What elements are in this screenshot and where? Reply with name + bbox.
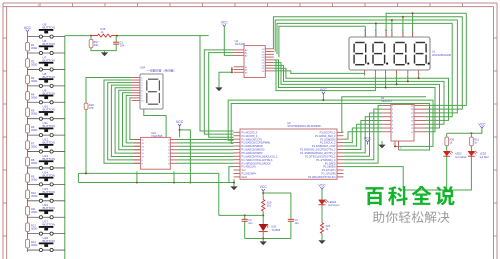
- wire C1 branch: [115, 36, 117, 43]
- wire VCC rail (left): [27, 31, 29, 252]
- wire button row 3: [28, 68, 65, 70]
- svg-text:8: 8: [392, 128, 393, 130]
- svg-text:9: 9: [392, 132, 393, 134]
- svg-text:E3: E3: [245, 72, 247, 74]
- svg-text:1: 1: [168, 140, 169, 142]
- wire vcc to LED: [321, 189, 323, 200]
- wire MCU to U3: [344, 113, 383, 156]
- LED LED24 green: [319, 199, 340, 207]
- wire seg bus b3: [274, 65, 444, 124]
- power VCC (mid): [320, 88, 328, 94]
- svg-text:VCC: VCC: [364, 136, 372, 140]
- resistor R21 1k: [470, 137, 480, 146]
- junction: [470, 132, 472, 134]
- power VCC (TL431): [260, 185, 268, 191]
- wire tap line: [219, 214, 263, 216]
- wire reset net: [200, 35, 209, 37]
- svg-text:O5: O5: [262, 63, 265, 65]
- wire button row 5: [28, 101, 65, 103]
- wire MCU to U3: [344, 132, 383, 139]
- svg-text:P1.2(M30): P1.2(M30): [323, 165, 335, 169]
- svg-text:led Red: led Red: [480, 156, 489, 159]
- capacitor C3 10u: [288, 219, 299, 225]
- svg-text:300Ω: 300Ω: [31, 210, 37, 214]
- wire 7seg segment net: [123, 93, 141, 147]
- wire link A-B: [77, 173, 79, 182]
- diode U25 TL431B: [259, 224, 281, 232]
- resistor R6 300: [26, 124, 38, 133]
- ground (U4): [215, 87, 222, 91]
- resistor R19 510: [262, 200, 272, 212]
- wire button row 6: [28, 118, 65, 120]
- svg-text:300Ω: 300Ω: [31, 95, 37, 99]
- svg-text:3: 3: [392, 109, 393, 111]
- ground (green LED): [318, 240, 325, 244]
- svg-text:P1.4/SMOD2/RxD3_2(OTP)_2: P1.4/SMOD2/RxD3_2(OTP)_2: [300, 151, 336, 155]
- svg-text:P1.3/CCP0_3: P1.3/CCP0_3: [242, 134, 258, 138]
- svg-text:led Yellow: led Yellow: [455, 156, 466, 159]
- wire MCU to U3: [344, 105, 383, 163]
- resistor R26 470: [84, 103, 94, 110]
- push-button U8: [39, 72, 55, 88]
- junction: [375, 22, 377, 24]
- resistor R12 300: [26, 223, 38, 232]
- 7-segment display U24: [140, 65, 174, 109]
- svg-text:300Ω: 300Ω: [31, 243, 37, 247]
- resistor R20 1k: [445, 137, 455, 146]
- svg-text:9: 9: [142, 160, 143, 162]
- wire U21 to U2: [178, 139, 234, 141]
- wire seg bus b6: [276, 60, 375, 91]
- wire MCU to U3: [344, 109, 383, 160]
- svg-text:P1.3/MOSI0_2/CCP2/(OTR)_2: P1.3/MOSI0_2/CCP2/(OTR)_2: [300, 148, 336, 152]
- svg-text:P1.4/T3(M3C)_2: P1.4/T3(M3C)_2: [316, 158, 336, 162]
- push-button U15: [39, 187, 55, 203]
- svg-text:P1.5/SCMPx: P1.5/SCMPx: [242, 172, 258, 176]
- svg-text:12: 12: [411, 132, 413, 134]
- wire gnd stub: [262, 239, 264, 242]
- svg-text:300Ω: 300Ω: [31, 46, 37, 50]
- svg-text:VCC: VCC: [176, 120, 184, 124]
- resistor R8 300: [26, 157, 38, 166]
- svg-text:300Ω: 300Ω: [31, 161, 37, 165]
- wire stub U21 oe: [173, 172, 175, 183]
- svg-text:300Ω: 300Ω: [31, 145, 37, 149]
- svg-text:8: 8: [168, 163, 169, 165]
- wire LED returns: [447, 156, 472, 190]
- svg-text:3: 3: [168, 146, 169, 148]
- svg-text:O2: O2: [262, 54, 265, 56]
- svg-text:15: 15: [411, 120, 413, 122]
- svg-text:15: 15: [142, 140, 144, 142]
- svg-text:14: 14: [142, 143, 144, 145]
- push-button U6: [39, 39, 55, 55]
- junction: [244, 214, 246, 216]
- svg-text:10u: 10u: [248, 222, 253, 225]
- svg-text:P1.0/CCP0_3: P1.0/CCP0_3: [320, 130, 336, 134]
- pin 10 U24: [132, 99, 141, 101]
- junction: [231, 69, 233, 71]
- svg-text:13: 13: [142, 146, 144, 148]
- push-button U12: [39, 138, 55, 154]
- wire MCU to U3: [344, 124, 383, 146]
- wire button bus (vertical): [64, 36, 66, 259]
- svg-text:P1.4/SCLK0: P1.4/SCLK0: [242, 165, 257, 169]
- svg-text:300Ω: 300Ω: [31, 194, 37, 198]
- wire button row 11: [28, 200, 65, 202]
- svg-text:BUTTON: BUTTON: [43, 239, 55, 243]
- pin 6 U24: [132, 89, 141, 91]
- wire U21 to U2: [178, 159, 234, 161]
- wire MCU P1.0 up: [342, 97, 426, 133]
- wire 7seg segment net: [130, 98, 141, 140]
- wire 7seg segment net: [126, 95, 140, 143]
- junction: [322, 99, 324, 101]
- wire button row 8: [28, 151, 65, 153]
- svg-text:300Ω: 300Ω: [31, 62, 37, 66]
- junction: [262, 192, 264, 194]
- wire gnd rail: [245, 238, 291, 240]
- svg-text:17: 17: [411, 113, 413, 115]
- pin 4 U24: [132, 84, 141, 86]
- push-button U18: [39, 236, 55, 252]
- svg-text:11: 11: [142, 153, 144, 155]
- svg-text:Gnd: Gnd: [242, 175, 247, 179]
- wire U21 to U2: [178, 145, 234, 147]
- svg-text:4: 4: [392, 113, 393, 115]
- wire button row 9: [28, 167, 65, 169]
- push-button U13: [39, 154, 55, 170]
- svg-text:A1: A1: [245, 52, 247, 55]
- power VCC (U21): [176, 120, 184, 126]
- svg-text:10: 10: [142, 157, 144, 159]
- wire U21 to U2: [178, 149, 234, 151]
- resistor R7 300: [26, 141, 38, 150]
- wire C2 bottom: [244, 221, 246, 238]
- svg-text:VCC: VCC: [24, 26, 32, 30]
- svg-text:P1.4/ADC4/CCP1: P1.4/ADC4/CCP1: [242, 137, 263, 141]
- wire seg bus b5: [274, 60, 435, 132]
- wire seg bus t2: [275, 20, 457, 113]
- svg-text:P1.5/ADC5/CCP2(PWM): P1.5/ADC5/CCP2(PWM): [242, 141, 271, 145]
- svg-text:300Ω: 300Ω: [31, 227, 37, 231]
- wire long net B: [78, 182, 234, 184]
- wire R26 down: [85, 109, 87, 173]
- resistor R11 300: [26, 207, 38, 216]
- svg-text:6: 6: [168, 157, 169, 159]
- push-button U14: [39, 170, 55, 186]
- svg-text:O7: O7: [262, 68, 265, 70]
- wire reset ground link: [91, 44, 116, 51]
- wire button row 14: [28, 249, 65, 251]
- svg-text:4: 4: [168, 150, 169, 152]
- wire button row 4: [28, 85, 65, 87]
- wire 7seg segment net: [115, 88, 141, 153]
- svg-text:2: 2: [392, 105, 393, 107]
- wire to C3: [263, 193, 291, 219]
- wire U21 to U2: [178, 162, 234, 164]
- junction: [412, 12, 414, 14]
- ground (reset circuit): [101, 52, 108, 56]
- svg-text:74HC573: 74HC573: [381, 99, 393, 103]
- junction: [179, 129, 181, 131]
- wire button row 10: [28, 183, 65, 185]
- svg-text:Vcc: Vcc: [242, 168, 247, 172]
- power VCC (button column): [24, 26, 32, 32]
- wire button row 2: [28, 52, 65, 54]
- resistor R2 300: [26, 59, 38, 68]
- wire seg bus b4: [274, 63, 440, 128]
- svg-text:P1.4/SMOD/T_LOW: P1.4/SMOD/T_LOW: [312, 144, 336, 148]
- svg-text:7: 7: [392, 124, 393, 126]
- wire button row 1: [28, 36, 65, 38]
- junction: [231, 71, 233, 73]
- resistor R13 300: [26, 239, 38, 248]
- svg-text:P1.6/ADC6/XTAL2/(MCLKO)_2: P1.6/ADC6/XTAL2/(MCLKO)_2: [242, 154, 279, 158]
- pin 1 U24: [132, 77, 141, 79]
- wire U3 LE net: [228, 100, 433, 146]
- resistor R10 300: [26, 190, 38, 199]
- wire stub U21 gnd: [136, 172, 138, 183]
- IC U3 74HC573: [381, 96, 426, 150]
- wire vcc node: [262, 191, 264, 200]
- svg-text:E1: E1: [245, 67, 247, 69]
- wire 7seg segment net: [111, 85, 140, 156]
- svg-text:5: 5: [168, 153, 169, 155]
- svg-text:1: 1: [393, 143, 394, 145]
- wire U4 A input: [204, 50, 233, 134]
- resistor R4 300: [26, 92, 38, 101]
- watermark subtitle: [373, 211, 450, 223]
- svg-text:U24: U24: [140, 65, 145, 69]
- junction: [396, 83, 398, 85]
- svg-text:104: 104: [120, 43, 125, 47]
- wire button row 7: [28, 134, 65, 136]
- wire seg bus b2: [274, 68, 449, 120]
- wire VCC drop: [322, 94, 324, 100]
- wire seg bus t3: [277, 23, 452, 116]
- svg-text:8: 8: [142, 163, 143, 165]
- svg-text:O1: O1: [262, 52, 265, 54]
- wire U4 B input: [209, 53, 234, 138]
- push-button U11: [39, 121, 55, 137]
- svg-text:BUTTON: BUTTON: [43, 141, 55, 145]
- wire U21 to U2: [178, 152, 234, 154]
- wire 7seg common: [144, 109, 166, 137]
- pin 7 U24: [132, 92, 141, 94]
- wire U21 to U2: [178, 142, 234, 144]
- wire display pin drops: [364, 26, 366, 37]
- svg-text:12: 12: [142, 150, 144, 152]
- wire VCC to U21: [179, 126, 181, 137]
- LED LED0 yellow: [443, 146, 466, 159]
- capacitor C1 104: [113, 40, 125, 47]
- svg-text:300Ω: 300Ω: [31, 177, 37, 181]
- wire MCU gnd: [233, 179, 235, 186]
- svg-text:P1.6/ADC6/SMOD0: P1.6/ADC6/SMOD0: [242, 148, 265, 152]
- svg-text:O3: O3: [262, 57, 265, 59]
- pin 9 U24: [132, 97, 141, 99]
- watermark title: [366, 186, 455, 205]
- ground (U3): [378, 141, 385, 148]
- svg-text:18: 18: [411, 109, 413, 111]
- svg-text:A0: A0: [245, 49, 247, 52]
- push-button U9: [39, 88, 55, 104]
- svg-text:P1.7/ADC7/XTAL1/(XTALI): P1.7/ADC7/XTAL1/(XTALI): [242, 158, 273, 162]
- svg-text:5: 5: [392, 117, 393, 119]
- junction: [85, 172, 87, 174]
- resistor R3 300: [26, 75, 38, 84]
- svg-text:510: 510: [267, 205, 272, 208]
- capacitor C2 10u: [242, 219, 253, 225]
- svg-text:P1.6/RXD3/XTAL2/ADC6: P1.6/RXD3/XTAL2/ADC6: [242, 161, 272, 165]
- wire 7seg pin1 to R26: [86, 78, 132, 104]
- junction: [385, 87, 387, 89]
- wire R20 drop: [446, 133, 448, 137]
- wire R19 to node: [262, 211, 264, 224]
- svg-text:TL431B: TL431B: [271, 229, 280, 232]
- resistor R22 1k: [320, 223, 330, 234]
- wire 7seg segment net: [108, 83, 141, 160]
- svg-text:P1.0/Rx2/IN/TXT/CLKO: P1.0/Rx2/IN/TXT/CLKO: [308, 175, 335, 179]
- svg-text:16: 16: [411, 117, 413, 119]
- wire R22 to gnd: [321, 233, 323, 240]
- svg-text:U1: U1: [432, 50, 436, 54]
- power VCC (green LED): [318, 183, 326, 189]
- IC U21 74HC595: [134, 131, 178, 169]
- wire display pin joins: [418, 75, 420, 78]
- wire VCC branch down: [180, 130, 191, 183]
- svg-text:VCC: VCC: [221, 21, 229, 25]
- wire MCU to U3: [344, 120, 383, 149]
- wire LED supply: [447, 128, 482, 133]
- wire VCC to U4: [224, 27, 233, 56]
- svg-text:O6: O6: [262, 65, 265, 67]
- wire U3 OE net: [231, 104, 429, 151]
- pin 2 U24: [132, 79, 141, 81]
- junction: [391, 19, 393, 21]
- svg-text:2: 2: [168, 143, 169, 145]
- junction: [262, 214, 264, 216]
- ground (MCU): [230, 186, 237, 190]
- svg-text:6: 6: [392, 120, 393, 122]
- power VCC (LEDs): [478, 122, 486, 128]
- wire long net A: [78, 173, 218, 215]
- svg-text:100: 100: [94, 43, 99, 47]
- wire top (bus to reset to MCU): [65, 35, 91, 37]
- svg-text:300Ω: 300Ω: [31, 79, 37, 83]
- junction: [136, 182, 138, 184]
- svg-text:VCC: VCC: [318, 183, 326, 187]
- svg-text:O8: O8: [262, 71, 265, 73]
- svg-text:13: 13: [411, 128, 413, 130]
- ground (TL431): [260, 241, 267, 245]
- IC U4 74LS138: [234, 39, 274, 78]
- svg-text:P1.1/SCLK_2: P1.1/SCLK_2: [320, 141, 336, 145]
- wire R21 drop: [470, 133, 472, 137]
- wire LED to R22: [321, 205, 323, 223]
- wire U3 vcc: [367, 142, 369, 144]
- svg-text:STC15W4K48AS-28I-SKDIP28: STC15W4K48AS-28I-SKDIP28: [287, 125, 321, 128]
- svg-text:P1.2(M3): P1.2(M3): [325, 161, 336, 165]
- svg-text:P1.1(Tx2/T): P1.1(Tx2/T): [322, 168, 336, 172]
- wire seg bus t1: [273, 17, 462, 109]
- power VCC (U3): [364, 136, 372, 142]
- svg-text:O0: O0: [262, 49, 265, 51]
- svg-text:VCC: VCC: [320, 88, 328, 92]
- junction: [418, 77, 420, 79]
- resistor R9 300: [26, 174, 38, 183]
- pin 8 U24: [132, 94, 141, 96]
- svg-text:P1.6/ADC6/SMOD: P1.6/ADC6/SMOD: [242, 144, 264, 148]
- svg-text:19: 19: [411, 105, 413, 107]
- junction: [407, 80, 409, 82]
- svg-text:VCC: VCC: [478, 122, 486, 126]
- junction: [402, 16, 404, 18]
- svg-text:P1.4/CCP3_3: P1.4/CCP3_3: [242, 130, 258, 134]
- junction (R16 left): [90, 35, 92, 37]
- svg-text:A2: A2: [245, 54, 247, 57]
- power VCC (U4): [221, 21, 229, 27]
- svg-text:O4: O4: [262, 60, 265, 62]
- svg-text:P1.1(Tx2/R): P1.1(Tx2/R): [322, 172, 336, 176]
- wire button row 13: [28, 233, 65, 235]
- junction: [262, 238, 264, 240]
- resistor R5 300: [26, 108, 38, 117]
- svg-text:11: 11: [400, 148, 402, 150]
- wire MCU to U3: [344, 117, 383, 153]
- pin 5 U24: [132, 87, 141, 89]
- push-button U16: [39, 203, 55, 219]
- wire R17 branch: [90, 36, 92, 40]
- svg-text:led Green: led Green: [328, 204, 340, 207]
- pin 3 U24: [132, 82, 141, 84]
- junction: [173, 182, 175, 184]
- wire 7seg segment net: [104, 80, 141, 163]
- svg-text:P1.4/RS3_SS0_3: P1.4/RS3_SS0_3: [315, 134, 336, 138]
- 4-digit 7-segment display U1: [349, 30, 451, 79]
- svg-text:P5.4/ADC0/CMP0: P5.4/ADC0/CMP0: [242, 151, 263, 155]
- wire TL431 bottom: [262, 232, 264, 239]
- junction (R16 right): [116, 35, 118, 37]
- svg-text:HSLS3461AGB: HSLS3461AGB: [432, 53, 451, 57]
- wire seg bus t4: [279, 26, 365, 57]
- resistor R1 300: [26, 42, 38, 51]
- wire seg bus t5: [386, 13, 466, 105]
- resistor R16: [91, 27, 117, 37]
- wire MCU pin to gnd line: [229, 167, 234, 183]
- wire U4 enable tie: [219, 67, 232, 88]
- wire MCU to U3: [344, 128, 383, 143]
- wire C3 bottom: [290, 221, 292, 238]
- junction: [394, 145, 396, 147]
- wire U21 to U2: [178, 156, 234, 158]
- wire button row 12: [28, 216, 65, 218]
- junction: [233, 182, 235, 184]
- svg-text:10u: 10u: [295, 222, 300, 225]
- junction: [189, 182, 191, 184]
- resistor R17: [89, 39, 99, 47]
- svg-text:300Ω: 300Ω: [31, 112, 37, 116]
- wire seg bus b1: [274, 71, 365, 76]
- push-button U5: [39, 23, 55, 39]
- svg-text:P1.3/T3/CLKOUT(OTR)_2: P1.3/T3/CLKOUT(OTR)_2: [305, 154, 336, 158]
- LED LED2 red: [468, 146, 489, 159]
- svg-text:300Ω: 300Ω: [31, 128, 37, 132]
- wire C2 drop: [244, 215, 246, 219]
- svg-text:7: 7: [168, 160, 169, 162]
- push-button U10: [39, 105, 55, 121]
